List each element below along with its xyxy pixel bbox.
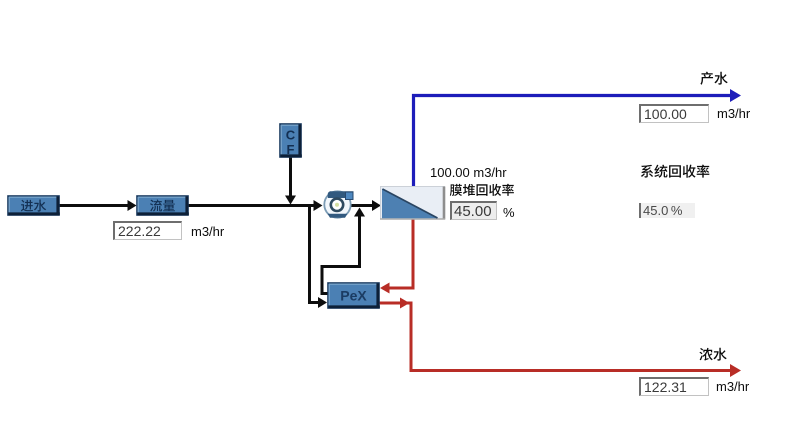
membrane hypotenuse xyxy=(383,189,438,218)
label 产水 (product water) xyxy=(700,72,727,85)
wire: membrane concentrate down-left into PeX xyxy=(388,218,413,288)
label 100.00 m3/hr (membrane feed note) xyxy=(430,165,507,180)
wire: feed branch down to PeX xyxy=(310,206,321,303)
pump base xyxy=(328,214,348,218)
pump impeller ring xyxy=(331,199,343,211)
PeX pressure exchanger box xyxy=(328,283,379,308)
arrowhead into PeX left xyxy=(318,297,327,308)
arrowhead on PeX drain line xyxy=(400,298,410,309)
arrowhead PeX HP joining discharge junction xyxy=(354,208,365,217)
intake (feed water) box xyxy=(8,196,59,215)
label 流量 (flow) xyxy=(150,200,175,212)
arrowhead concentrate into PeX right xyxy=(380,283,390,294)
arrowhead into pump xyxy=(314,200,323,211)
readonly field: system recovery 45.0 % xyxy=(639,203,695,219)
arrowhead product outfall xyxy=(730,89,741,102)
label 进水 (feed water) xyxy=(21,200,46,212)
arrowhead concentrate outfall xyxy=(730,364,741,377)
wire: PeX high-pressure out up to discharge junction xyxy=(322,214,360,294)
cartridge filter CF box xyxy=(280,124,301,157)
wire: cartridge filter drop xyxy=(289,157,292,197)
label 膜堆回收率 (stack recovery) xyxy=(450,184,514,196)
unit label m3/hr (feed) xyxy=(191,224,224,239)
pump volute casing top band xyxy=(328,191,354,198)
wire feed: intake to flow-box xyxy=(59,204,129,207)
membrane housing right edge xyxy=(443,187,446,220)
wire: pump discharge to membrane xyxy=(351,204,375,207)
wire: PeX low-pressure concentrate out to drain xyxy=(378,303,733,371)
svg-text:PeX: PeX xyxy=(340,288,367,304)
pump volute corner xyxy=(346,192,354,200)
wire: membrane permeate (product) line xyxy=(414,96,734,187)
unit label m3/hr (product) xyxy=(717,106,750,121)
label 系统回收率 (system recovery) xyxy=(641,165,710,178)
membrane housing bottom edge xyxy=(380,218,445,220)
flow-rate box xyxy=(137,196,188,215)
unit label m3/hr (concentrate) xyxy=(716,379,749,394)
label 浓水 (concentrate) xyxy=(699,348,726,361)
input: feed flow value 222.22 xyxy=(113,221,182,240)
pump hub dot xyxy=(335,203,339,207)
membrane triangle xyxy=(382,189,438,218)
pump body circle xyxy=(324,191,350,217)
label percent sign xyxy=(503,205,515,220)
input: concentrate flow 122.31 xyxy=(639,377,709,396)
arrowhead cartridge filter line down xyxy=(285,196,296,205)
membrane housing xyxy=(381,187,445,220)
arrowhead into flow box xyxy=(128,200,137,211)
arrowhead pump discharge into membrane xyxy=(372,200,381,211)
input: stack recovery 45.00 xyxy=(450,201,497,220)
svg-text:C: C xyxy=(286,128,296,143)
svg-text:F: F xyxy=(287,142,295,157)
wire feed: flow-box to pump xyxy=(187,204,315,207)
input: product flow 100.00 xyxy=(639,104,709,123)
